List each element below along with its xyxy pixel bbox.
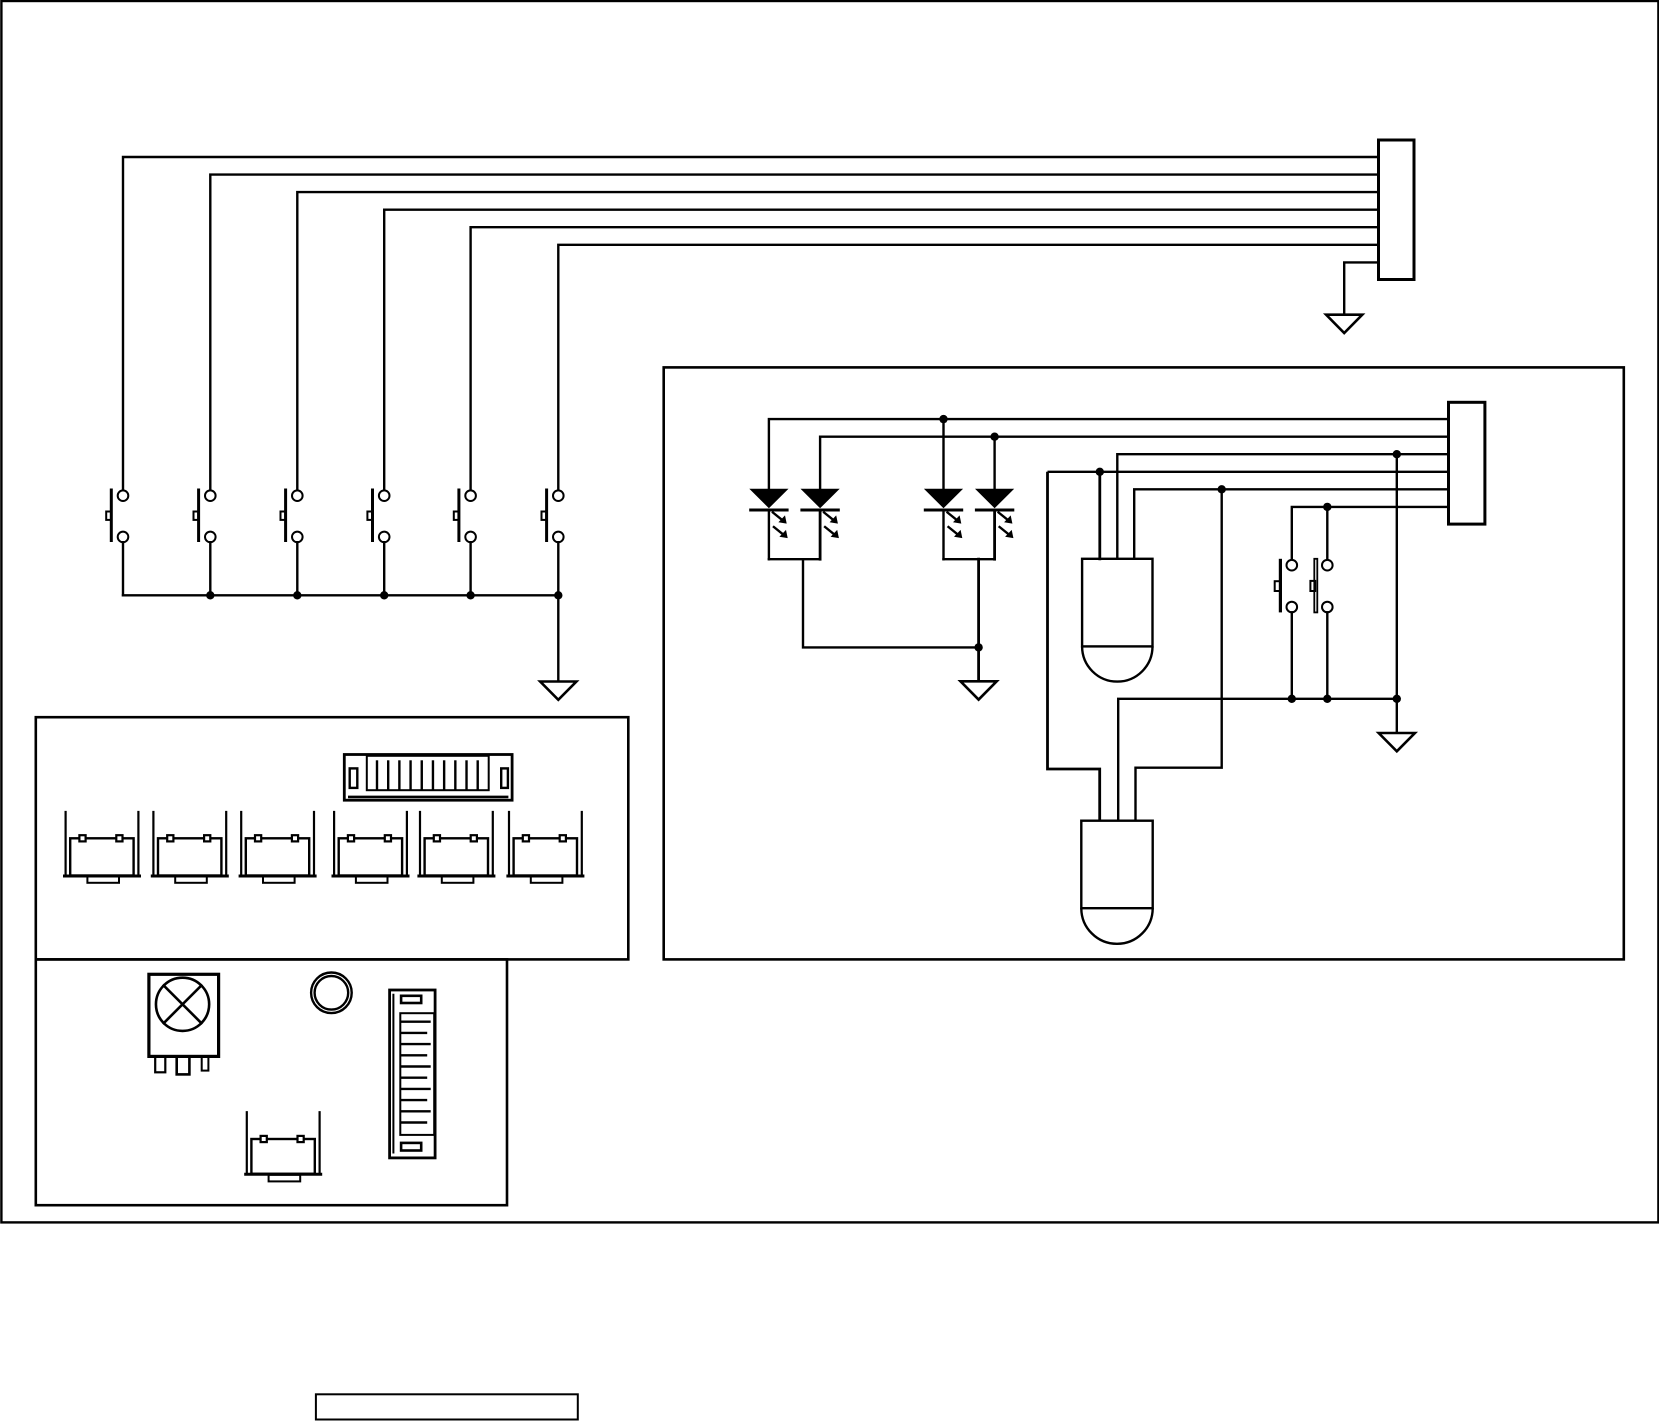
wire bus to ground	[557, 595, 559, 681]
wire D1-D2 rail	[769, 558, 820, 560]
pushbutton SW4	[367, 489, 389, 543]
junction	[939, 415, 947, 423]
connector J1	[1379, 140, 1415, 280]
LED D1	[751, 489, 788, 538]
wire MIC1 leg A	[1098, 472, 1101, 559]
switch S7	[246, 1112, 321, 1181]
junction	[990, 433, 998, 441]
connector J2	[344, 755, 512, 801]
ground	[1326, 315, 1362, 333]
pushbutton SW1	[106, 489, 128, 543]
connector J4	[1449, 402, 1485, 524]
wire SW1 to common bus	[122, 542, 124, 595]
connector J3	[390, 990, 436, 1158]
switch S2 (tact switch footprint)	[152, 812, 227, 883]
wire D2 cathode	[819, 510, 822, 559]
wire J1 ground pin	[1344, 262, 1378, 314]
wire staple to MIC2 pin A	[1048, 472, 1100, 821]
junction	[206, 591, 214, 599]
ground	[1379, 733, 1415, 751]
wire PB8 bottom	[1326, 612, 1328, 699]
wire SW5 to common bus	[469, 542, 471, 595]
wire SW4 to J1 pin 4	[384, 210, 1378, 491]
lamp LA1	[149, 974, 219, 1074]
switch S3 (tact switch footprint)	[240, 812, 315, 883]
pushbutton PB8	[1310, 559, 1332, 613]
LED D4	[976, 489, 1013, 538]
junction	[293, 591, 301, 599]
wire SW1 to J1 pin 1	[123, 157, 1379, 490]
switch S5 (tact switch footprint)	[419, 812, 494, 883]
board outline box A (keypad board)	[36, 717, 629, 959]
switch S1 (tact switch footprint)	[65, 812, 140, 883]
junction	[1323, 503, 1331, 511]
wire LED3 anode	[942, 419, 944, 489]
wire pair2 to ground node	[977, 559, 980, 647]
wire D1 cathode	[768, 510, 770, 559]
wire MIC1 pin B to J4 pin 3	[1117, 454, 1448, 559]
wire PB7/PB8 tops to J4 pin 6	[1292, 507, 1449, 560]
indicator ring DS1	[311, 973, 352, 1014]
junction	[1288, 695, 1296, 703]
junction	[466, 591, 474, 599]
wire D4 cathode	[993, 510, 996, 559]
switch S6 (tact switch footprint)	[508, 812, 583, 883]
wire ground rail to MIC2 pin B	[1118, 699, 1397, 821]
junction	[974, 643, 982, 651]
switch S4 (tact switch footprint)	[333, 812, 408, 883]
wire SW3 to common bus	[296, 542, 298, 595]
wire PB7 bottom	[1291, 612, 1293, 699]
junction	[1393, 450, 1401, 458]
junction	[380, 591, 388, 599]
pushbutton SW2	[194, 489, 216, 543]
wire SW2 to common bus	[209, 542, 211, 595]
pushbutton SW3	[281, 489, 303, 543]
wire MIC1 pin C to J4 pin 5	[1134, 489, 1448, 559]
pushbutton PB7	[1275, 559, 1297, 613]
junction	[1218, 485, 1226, 493]
board outline box B (indicator board)	[36, 959, 507, 1205]
LED D2	[802, 489, 839, 538]
wire net LED1/LED3 anodes to J4 pin 1	[769, 419, 1449, 489]
microphone MIC1	[1082, 559, 1152, 682]
wire SW6 to common bus	[557, 542, 559, 595]
title block	[316, 1394, 578, 1419]
wire net LED2/LED4 anodes to J4 pin 2	[820, 437, 1448, 490]
wire J4 pin3 net to ground rail	[1396, 454, 1398, 699]
wire SW4 to common bus	[383, 542, 385, 595]
junction	[1323, 695, 1331, 703]
wire LED4 anode	[993, 437, 995, 490]
wire pair1 to ground node	[803, 559, 979, 647]
microphone MIC2	[1081, 821, 1152, 944]
ground	[961, 681, 997, 699]
wire net MIC1 pin A / MIC2 pin A to J4 pin 4	[1048, 471, 1449, 473]
junction	[554, 591, 562, 599]
wire to ground	[977, 647, 980, 681]
LED D3	[925, 489, 962, 538]
junction	[1096, 468, 1104, 476]
wire SW3 to J1 pin 3	[297, 192, 1378, 490]
wire branch to MIC2 pin C	[1136, 489, 1222, 820]
wire D3-D4 rail	[944, 558, 995, 560]
pushbutton SW5	[454, 489, 476, 543]
pushbutton SW6	[542, 489, 564, 543]
board outline box C (sensor board)	[664, 367, 1624, 959]
wire SW6 to J1 pin 6	[558, 245, 1378, 491]
wire SW5 to J1 pin 5	[471, 227, 1379, 490]
wire D3 cathode	[942, 510, 944, 559]
wire SW2 to J1 pin 2	[210, 175, 1378, 491]
ground	[540, 682, 576, 700]
wire rail to ground	[1396, 699, 1398, 733]
wire PB8 top	[1326, 507, 1328, 560]
junction	[1393, 695, 1401, 703]
wire common bus	[123, 594, 558, 596]
